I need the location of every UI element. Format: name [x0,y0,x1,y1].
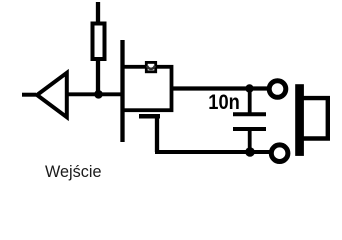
wire (bottom rail) [155,150,270,154]
node C (junction dot below capacitor) [245,147,255,157]
wire (ground pin down) [155,116,159,152]
input arrow (Wejscie buffer triangle) [37,73,67,117]
node A (junction dot at resistor) [94,90,103,99]
capacitor C1 top plate [233,112,266,116]
wire (resistor bottom to node) [96,61,100,96]
wire (capacitor bottom lead) [248,129,252,152]
wire (box output to top terminal) [170,86,268,90]
IR receiver U1 lens dome [147,66,155,69]
speaker diaphragm bar [295,84,304,156]
speaker magnet box [304,98,328,138]
capacitor C1 bottom plate [233,127,266,131]
terminal circle (bottom output) [271,145,288,162]
IR receiver U1 ground pin bar [139,114,160,119]
terminal circle (top output) [269,81,286,98]
wire (left input stub) [22,93,36,97]
svg-text:10n: 10n [208,90,240,114]
IR receiver U1 pin line (tall left lead) [120,40,124,142]
wire (top supply lead) [96,2,100,23]
IR receiver U1 lens window [146,62,155,71]
IR receiver U1 body [123,67,172,110]
svg-text:Wejście: Wejście [45,162,102,181]
wire (capacitor top lead) [248,89,252,116]
wire (triangle to box) [67,92,123,96]
resistor R1 [93,24,105,60]
node B (junction dot above capacitor) [245,84,253,92]
